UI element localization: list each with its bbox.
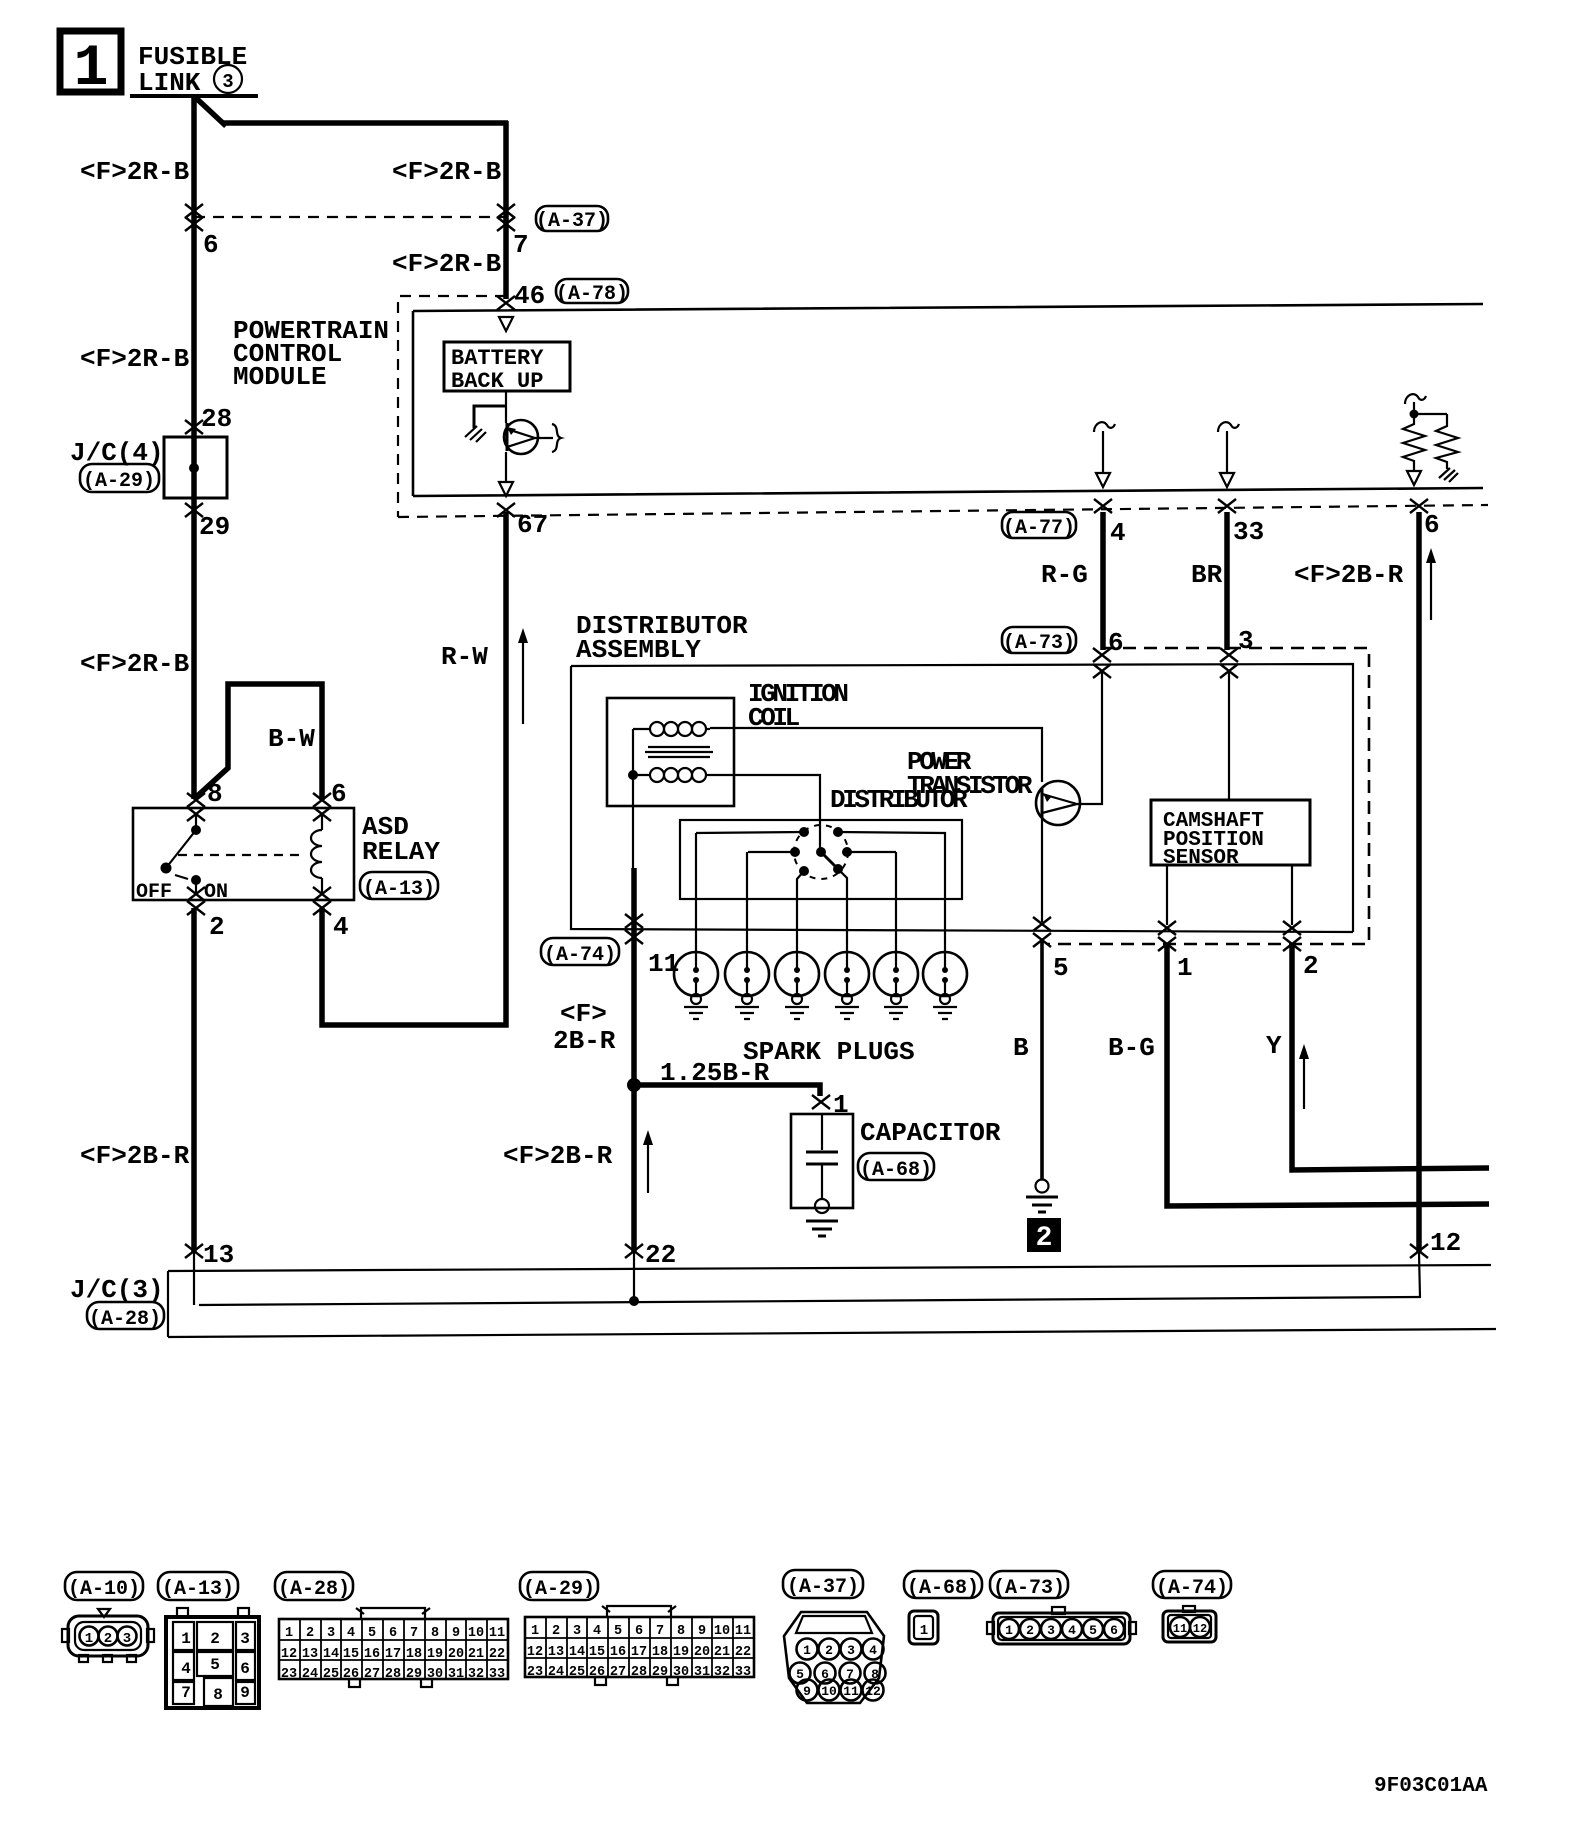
relay ON contact <box>191 875 201 885</box>
pin 5 marks <box>1033 917 1051 931</box>
pin 28 <box>185 420 203 434</box>
svg-text:21: 21 <box>468 1647 484 1662</box>
svg-text:5: 5 <box>1053 953 1069 983</box>
svg-text:4: 4 <box>1110 518 1126 548</box>
svg-text:1: 1 <box>285 1626 293 1641</box>
pin 7 connector marks <box>497 204 515 218</box>
pin 6 connector mark (right) <box>1410 499 1428 513</box>
svg-text:<F>2R-B: <F>2R-B <box>392 157 502 187</box>
svg-text:9: 9 <box>803 1684 811 1699</box>
wire branch horizontal top <box>223 120 508 126</box>
svg-text:31: 31 <box>448 1667 464 1682</box>
svg-text:6: 6 <box>240 1660 250 1678</box>
svg-text:7: 7 <box>656 1624 664 1639</box>
svg-text:9: 9 <box>452 1626 460 1641</box>
svg-text:2: 2 <box>306 1626 314 1641</box>
connector A-29 body <box>525 1606 754 1685</box>
svg-text:11: 11 <box>843 1684 859 1699</box>
connector A-73 body <box>987 1607 1136 1644</box>
svg-text:18: 18 <box>406 1647 422 1662</box>
PCM dashed connector outline <box>398 296 506 517</box>
svg-text:8: 8 <box>207 779 223 809</box>
wire 13 into bus <box>193 1253 195 1305</box>
wire A-73 pin3 to sensor <box>1228 671 1230 800</box>
wire right vertical (F)2R-B to PCM 46 <box>503 121 509 299</box>
svg-text:R-G: R-G <box>1041 560 1088 590</box>
svg-text:25: 25 <box>569 1665 585 1680</box>
svg-text:33: 33 <box>1233 517 1264 547</box>
connector A-13 label <box>158 1572 238 1600</box>
J/C(3) bottom line <box>168 1329 1496 1337</box>
svg-text:LINK: LINK <box>138 68 201 98</box>
connector A-13 body <box>166 1608 259 1708</box>
svg-text:22: 22 <box>489 1647 505 1662</box>
PCM output driver pin 33 <box>1218 422 1239 432</box>
svg-text:2: 2 <box>825 1643 833 1658</box>
svg-text:11: 11 <box>648 949 679 979</box>
svg-text:32: 32 <box>468 1667 484 1682</box>
svg-text:3: 3 <box>222 71 233 93</box>
svg-text:<F>2R-B: <F>2R-B <box>80 157 190 187</box>
connector A-74 body <box>1163 1606 1216 1642</box>
svg-text:2: 2 <box>1026 1623 1034 1638</box>
core lines <box>645 747 713 757</box>
relay actuation dashed link <box>178 854 306 856</box>
svg-text:15: 15 <box>589 1645 605 1660</box>
svg-text:7: 7 <box>513 230 529 260</box>
relay pin 2 marks <box>187 887 205 901</box>
svg-text:22: 22 <box>735 1645 751 1660</box>
distributor assembly solid box <box>571 664 1353 932</box>
pin 67 connector mark <box>497 503 515 517</box>
svg-text:33: 33 <box>735 1665 751 1680</box>
PCM output triangle at pin 67 <box>499 482 513 496</box>
svg-text:12: 12 <box>527 1645 543 1660</box>
svg-text:33: 33 <box>489 1667 505 1682</box>
svg-text:(A-78): (A-78) <box>556 283 628 306</box>
svg-text:J/C(3): J/C(3) <box>70 1275 164 1305</box>
svg-text:19: 19 <box>427 1647 443 1662</box>
svg-text:4: 4 <box>1068 1623 1076 1638</box>
secondary winding <box>633 774 650 776</box>
svg-text:OFF: OFF <box>136 881 172 904</box>
transistor Q battery-backup (PNP) <box>504 420 538 454</box>
connector A-68 label <box>904 1571 982 1598</box>
svg-text:ASSEMBLY: ASSEMBLY <box>576 635 701 665</box>
capacitor ground <box>806 1221 838 1236</box>
svg-text:27: 27 <box>610 1665 626 1680</box>
wire R-G pin4 to A-73 pin6 <box>1100 512 1106 650</box>
svg-text:(A-37): (A-37) <box>536 210 608 233</box>
svg-text:20: 20 <box>448 1647 464 1662</box>
svg-text:4: 4 <box>333 912 349 942</box>
svg-text:1: 1 <box>74 37 109 102</box>
resistor R right <box>1436 414 1458 469</box>
svg-text:<F>2B-R: <F>2B-R <box>503 1141 613 1171</box>
svg-text:2: 2 <box>1303 951 1319 981</box>
connector A-74 label <box>1153 1571 1231 1598</box>
svg-text:9F03C01AA: 9F03C01AA <box>1374 1775 1488 1798</box>
svg-text:5: 5 <box>1089 1623 1097 1638</box>
svg-text:1: 1 <box>1005 1623 1013 1638</box>
svg-text:12: 12 <box>1193 1622 1207 1636</box>
wire B pin5 to ground <box>1040 940 1044 1180</box>
wire BR pin33 to A-73 pin3 <box>1224 512 1230 650</box>
svg-text:(A-28): (A-28) <box>89 1308 161 1331</box>
svg-text:10: 10 <box>468 1626 484 1641</box>
PCM dashed bottom line (A-77 row) <box>398 505 1488 517</box>
svg-text:<F>2R-B: <F>2R-B <box>392 249 502 279</box>
svg-text:<F>2R-B: <F>2R-B <box>80 649 190 679</box>
pull-up resistor pair top squiggle <box>1405 394 1426 404</box>
svg-text:<F>2B-R: <F>2B-R <box>80 1141 190 1171</box>
svg-text:MODULE: MODULE <box>233 362 327 392</box>
connector A-73 dashed box <box>1047 648 1369 944</box>
svg-text:CAPACITOR: CAPACITOR <box>860 1118 1001 1148</box>
svg-text:5: 5 <box>368 1626 376 1641</box>
svg-text:16: 16 <box>364 1647 380 1662</box>
direction arrow up Y wire <box>1303 1054 1305 1109</box>
svg-text:DISTRIBUTOR: DISTRIBUTOR <box>830 785 968 815</box>
svg-text:1: 1 <box>531 1624 539 1639</box>
pin 29 <box>185 503 203 517</box>
svg-text:4: 4 <box>869 1643 877 1658</box>
svg-text:3: 3 <box>847 1643 855 1658</box>
svg-text:25: 25 <box>323 1667 339 1682</box>
svg-text:12: 12 <box>281 1647 297 1662</box>
resistor R left <box>1403 414 1425 471</box>
wire from battery backup to transistor <box>505 391 507 423</box>
wire 22 into bus with junction dot <box>633 1253 635 1302</box>
svg-text:28: 28 <box>385 1667 401 1682</box>
svg-text:22: 22 <box>645 1240 676 1270</box>
svg-text:6: 6 <box>203 230 219 260</box>
svg-text:5: 5 <box>210 1656 220 1674</box>
OFF / ON labels <box>175 875 188 879</box>
sensor output wires <box>1166 865 1168 925</box>
ground reference 2 black box <box>1027 1218 1061 1252</box>
svg-text:3: 3 <box>573 1624 581 1639</box>
svg-text:6: 6 <box>331 779 347 809</box>
svg-text:17: 17 <box>631 1645 647 1660</box>
svg-text:11: 11 <box>489 1626 505 1641</box>
A-73 pin 3 marks <box>1220 648 1238 662</box>
pin 2 marks <box>1283 921 1301 935</box>
ASD relay box <box>133 808 354 900</box>
svg-text:<F>: <F> <box>560 999 607 1029</box>
svg-text:16: 16 <box>610 1645 626 1660</box>
internal ground branch <box>474 406 506 428</box>
wire B-G pin1 <box>1167 944 1489 1206</box>
J/C(3) top line <box>168 1265 1491 1271</box>
A-73 pin 6 marks <box>1093 648 1111 662</box>
J/C(3) internal bus bar <box>199 1297 1421 1305</box>
svg-text:8: 8 <box>213 1686 223 1704</box>
wire primary to power transistor <box>710 728 1042 782</box>
svg-text:7: 7 <box>410 1626 418 1641</box>
wire transistor to A-73 pin 6 <box>1077 671 1102 804</box>
svg-text:1: 1 <box>920 1623 928 1639</box>
PCM input triangle at pin 46 <box>499 317 513 331</box>
svg-text:3: 3 <box>327 1626 335 1641</box>
relay pin 8 marks <box>187 793 205 807</box>
svg-text:13: 13 <box>302 1647 318 1662</box>
wire (F)2R-B left main vertical from fusible link <box>191 97 197 799</box>
connector A-10 label <box>65 1572 143 1600</box>
wire Y pin2 <box>1292 944 1489 1170</box>
ground symbol B wire <box>1036 1180 1049 1193</box>
connector label A-37 <box>536 206 608 231</box>
pin 6 connector marks <box>185 204 203 218</box>
svg-text:RELAY: RELAY <box>362 837 440 867</box>
svg-text:2B-R: 2B-R <box>553 1026 616 1056</box>
PCM output driver pin 4 <box>1094 422 1115 432</box>
junction dot <box>1410 410 1419 419</box>
direction arrow up wire 22 <box>647 1140 649 1193</box>
wire R-W PCM 67 to relay pin 4 <box>322 512 506 1025</box>
svg-text:18: 18 <box>652 1645 668 1660</box>
svg-text:28: 28 <box>631 1665 647 1680</box>
svg-text:4: 4 <box>347 1626 355 1641</box>
svg-text:(A-10): (A-10) <box>68 1578 140 1601</box>
battery back up block <box>444 342 570 391</box>
connector A-29 label <box>520 1572 598 1600</box>
pin 22 mark <box>625 1244 643 1258</box>
svg-text:3: 3 <box>240 1630 250 1648</box>
internal chassis ground right <box>1439 468 1458 482</box>
relay switch blade (OFF position) <box>166 830 196 868</box>
wire branch diagonal to right feed <box>196 98 226 126</box>
svg-text:3: 3 <box>1047 1623 1055 1638</box>
svg-text:(A-68): (A-68) <box>907 1577 979 1600</box>
connector A-37 body <box>784 1612 886 1703</box>
svg-text:ON: ON <box>204 881 228 904</box>
svg-text:2: 2 <box>1036 1223 1053 1254</box>
capacitor C (A-68) <box>791 1114 853 1208</box>
direction arrow up R-W <box>522 638 524 724</box>
svg-text:(A-73): (A-73) <box>1003 632 1075 655</box>
svg-text:6: 6 <box>1110 1623 1118 1638</box>
primary winding <box>633 728 650 730</box>
ignition coil box <box>607 698 734 806</box>
svg-text:R-W: R-W <box>441 642 488 672</box>
svg-text:32: 32 <box>714 1665 730 1680</box>
svg-text:13: 13 <box>203 1240 234 1270</box>
svg-text:BACK UP: BACK UP <box>451 369 543 394</box>
spark plug rail top <box>696 832 804 833</box>
svg-text:(A-37): (A-37) <box>787 1576 859 1599</box>
svg-text:14: 14 <box>323 1647 339 1662</box>
wire (F)2B-R relay pin2 down to J/C(3) 13 <box>191 908 197 1253</box>
svg-text:8: 8 <box>431 1626 439 1641</box>
svg-text:5: 5 <box>614 1624 622 1639</box>
svg-text:2: 2 <box>104 1631 112 1647</box>
svg-text:17: 17 <box>385 1647 401 1662</box>
coil left vertical and junction dot <box>632 729 634 870</box>
connector A-37 label <box>783 1570 863 1598</box>
svg-text:29: 29 <box>406 1667 422 1682</box>
connector label A-73 <box>1002 627 1076 653</box>
wire secondary to distributor center <box>710 775 820 848</box>
svg-text:12: 12 <box>1430 1228 1461 1258</box>
pin 4 connector mark <box>1094 499 1112 513</box>
svg-text:9: 9 <box>698 1624 706 1639</box>
svg-text:8: 8 <box>677 1624 685 1639</box>
direction arrow up <box>1430 558 1432 620</box>
pin 12 mark <box>1410 1244 1428 1258</box>
junction dot inside J/C(4) <box>189 463 199 473</box>
relay coil from pin 6 <box>321 814 323 830</box>
svg-text:(A-73): (A-73) <box>993 1577 1065 1600</box>
wire 1.25B-R to capacitor <box>634 1085 820 1096</box>
svg-text:2: 2 <box>209 912 225 942</box>
connector A-10 body <box>62 1609 154 1662</box>
wire B-W staple pin8 to pin6 <box>194 684 322 800</box>
relay pin 6 marks <box>313 793 331 807</box>
connector A-68 body <box>909 1611 938 1644</box>
svg-text:(A-13): (A-13) <box>363 878 435 901</box>
svg-text:28: 28 <box>201 404 232 434</box>
transistor Q power (in distributor assembly) <box>1036 781 1080 825</box>
PCM solid box <box>413 304 1483 496</box>
plug wire 4 <box>838 869 847 954</box>
connector A-37 dashed line <box>194 216 506 218</box>
connector A-28 body <box>279 1608 508 1687</box>
wire 2B-R coil negative down to J/C(3) 22 <box>631 868 637 1253</box>
svg-text:B-G: B-G <box>1108 1033 1155 1063</box>
svg-text:6: 6 <box>389 1626 397 1641</box>
svg-text:10: 10 <box>821 1684 837 1699</box>
svg-text:14: 14 <box>569 1645 585 1660</box>
svg-text:1: 1 <box>85 1631 93 1647</box>
pin 11 marks <box>625 914 643 928</box>
capacitor pin 1 mark <box>812 1095 830 1109</box>
svg-text:6: 6 <box>1424 510 1440 540</box>
svg-text:B-W: B-W <box>268 724 315 754</box>
pin 46 connector mark <box>497 296 515 310</box>
distributor rotor <box>816 847 826 857</box>
svg-text:9: 9 <box>240 1684 250 1702</box>
connector A-28 label <box>275 1572 353 1600</box>
svg-text:SENSOR: SENSOR <box>1163 847 1239 870</box>
svg-text:B: B <box>1013 1033 1029 1063</box>
svg-text:24: 24 <box>302 1667 318 1682</box>
svg-text:(A-29): (A-29) <box>83 470 155 493</box>
power source box 1 <box>60 31 121 92</box>
svg-text:1: 1 <box>803 1643 811 1658</box>
svg-text:15: 15 <box>343 1647 359 1662</box>
svg-text:20: 20 <box>694 1645 710 1660</box>
svg-text:19: 19 <box>673 1645 689 1660</box>
svg-text:29: 29 <box>199 512 230 542</box>
relay pin 4 marks <box>313 887 331 901</box>
svg-text:3: 3 <box>1238 626 1254 656</box>
svg-text:1.25B-R: 1.25B-R <box>660 1058 770 1088</box>
svg-text:<F>2R-B: <F>2R-B <box>80 344 190 374</box>
svg-text:(A-13): (A-13) <box>162 1578 234 1601</box>
spark plugs <box>674 952 967 1019</box>
svg-text:23: 23 <box>527 1665 543 1680</box>
connector label A-74 <box>541 938 619 965</box>
plug wire 5 <box>895 852 897 954</box>
svg-text:12: 12 <box>865 1684 881 1699</box>
svg-text:(A-77): (A-77) <box>1003 517 1075 540</box>
plug wire 1 <box>695 833 697 954</box>
svg-text:11: 11 <box>1173 1622 1187 1636</box>
connector label A-13 <box>360 872 438 899</box>
svg-text:67: 67 <box>517 510 548 540</box>
pin 1 marks <box>1158 921 1176 935</box>
svg-text:Y: Y <box>1266 1031 1282 1061</box>
svg-text:(A-28): (A-28) <box>278 1578 350 1601</box>
camshaft position sensor <box>1151 800 1310 865</box>
svg-text:2: 2 <box>552 1624 560 1639</box>
svg-text:1: 1 <box>1177 953 1193 983</box>
pickup squiggle <box>552 424 561 452</box>
svg-text:23: 23 <box>281 1667 297 1682</box>
svg-text:4: 4 <box>593 1624 601 1639</box>
svg-text:27: 27 <box>364 1667 380 1682</box>
svg-text:6: 6 <box>635 1624 643 1639</box>
svg-text:11: 11 <box>735 1624 751 1639</box>
svg-text:(A-68): (A-68) <box>860 1159 932 1182</box>
distributor contacts <box>799 827 809 837</box>
svg-text:46: 46 <box>514 281 545 311</box>
plug wire 2 <box>746 852 748 954</box>
junction block J/C(4) <box>164 437 227 498</box>
svg-text:1: 1 <box>833 1090 849 1120</box>
svg-text:24: 24 <box>548 1665 564 1680</box>
svg-text:10: 10 <box>714 1624 730 1639</box>
wire (F)2B-R right vertical pin6 to J/C(3) 12 <box>1416 512 1422 1253</box>
spark plug rail middle <box>748 851 896 853</box>
svg-text:7: 7 <box>181 1684 191 1702</box>
connector label A-77 <box>1002 512 1076 538</box>
svg-text:31: 31 <box>694 1665 710 1680</box>
transistor emitter to pin 67 <box>505 452 507 482</box>
svg-text:1: 1 <box>181 1630 191 1648</box>
svg-text:(A-74): (A-74) <box>1156 1577 1228 1600</box>
svg-text:3: 3 <box>123 1631 131 1647</box>
svg-text:2: 2 <box>210 1630 220 1648</box>
svg-text:BR: BR <box>1191 560 1223 590</box>
distributor cap dashed circle <box>794 825 848 879</box>
relay switch contact from pin 8 <box>195 814 197 826</box>
svg-text:13: 13 <box>548 1645 564 1660</box>
connector label A-78 <box>556 279 628 303</box>
svg-text:21: 21 <box>714 1645 730 1660</box>
J/C(3) left edge <box>167 1271 169 1337</box>
connector A-73 label <box>990 1571 1068 1598</box>
svg-text:29: 29 <box>652 1665 668 1680</box>
plug wire 3 <box>797 871 804 954</box>
distributor inner box <box>680 820 962 899</box>
svg-text:BATTERY: BATTERY <box>451 346 544 371</box>
plug wire 6 <box>838 832 945 954</box>
svg-text:<F>2B-R: <F>2B-R <box>1294 560 1404 590</box>
wire 12 into bus <box>1419 1253 1420 1297</box>
pin 13 mark <box>185 1244 203 1258</box>
wire transistor emitter to pin 5 <box>1041 818 1043 922</box>
svg-text:(A-74): (A-74) <box>544 944 616 967</box>
svg-text:4: 4 <box>181 1660 191 1678</box>
junction dot 1.25B-R <box>627 1078 641 1092</box>
svg-text:6: 6 <box>1108 628 1124 658</box>
pin 33 connector mark <box>1218 499 1236 513</box>
svg-text:(A-29): (A-29) <box>523 1578 595 1601</box>
